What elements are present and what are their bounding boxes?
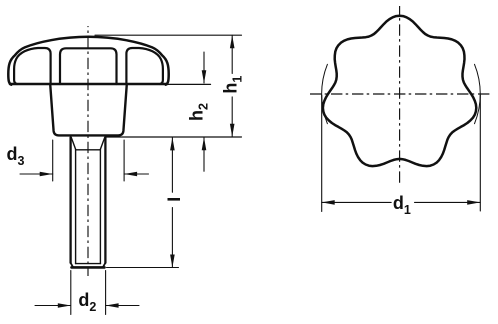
arrowhead d3 left (40, 172, 53, 177)
extension line: head bottom (h2 top tick) (165, 83, 211, 85)
right lobe (126, 48, 162, 84)
knob head outer profile (8, 37, 168, 85)
arrowhead h2 top (202, 70, 207, 83)
arrowhead l top (170, 137, 175, 150)
centerline of side view (87, 26, 89, 276)
d1 circle arc left (322, 64, 328, 123)
dimension d1 line (322, 201, 392, 203)
arrowhead h2 bottom (202, 137, 207, 150)
stud outer right line (104, 137, 106, 262)
stud bottom face (72, 266, 105, 269)
arrowhead h1 bottom (230, 124, 235, 137)
dimension h2 line (203, 52, 205, 83)
arrowhead d2 right (106, 303, 119, 308)
stud end chamfer right (103, 263, 106, 268)
extension line: hub bottom / stud top (106, 136, 242, 138)
star view centerline vertical (399, 6, 401, 184)
extension line: d2 right (105, 271, 107, 315)
dimension d3 line (20, 173, 53, 175)
thread runout diagonal left (71, 137, 76, 150)
center lobe (60, 48, 117, 84)
d1 circle arc right (475, 64, 481, 123)
left lobe (14, 48, 51, 84)
extension line: d1 left (321, 95, 323, 212)
arrowhead l bottom (170, 255, 175, 268)
arrowhead d3 right (124, 172, 137, 177)
thread end cross line (76, 263, 101, 265)
star knob outline (7 lobes) (323, 16, 476, 166)
arrowhead h1 top (230, 35, 235, 48)
hub (tapered boss) (50, 86, 126, 136)
arrowhead d2 left (58, 303, 71, 308)
stud outer left line (69, 137, 71, 262)
thread minor line left (75, 150, 77, 264)
extension line: d1 right (479, 95, 481, 211)
head bottom line (10, 83, 167, 86)
dimension h1 line (231, 35, 233, 73)
extension line: stud bottom (l) (107, 267, 179, 269)
thread runout diagonal right (100, 137, 105, 150)
label l (drawn as bar, rotated lowercase l) (168, 198, 181, 201)
extension line: d2 left (70, 271, 72, 315)
extension line: d3 left (52, 140, 54, 181)
stud end chamfer left (71, 263, 74, 268)
thread runout cross line (76, 149, 101, 151)
arrowhead d1 right (467, 200, 480, 205)
thread minor line right (99, 150, 101, 264)
extension line: head top (h1) (95, 34, 242, 36)
star view centerline horizontal (310, 93, 490, 95)
arrowhead d1 left (322, 200, 335, 205)
extension line: d3 right (123, 140, 125, 181)
dimension l line (171, 137, 173, 192)
dimension d2 line (35, 305, 70, 307)
